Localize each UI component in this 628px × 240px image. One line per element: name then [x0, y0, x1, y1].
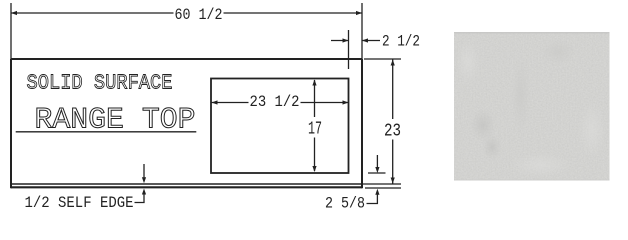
arrow 1/2 lower (points up) [142, 189, 146, 195]
arrow 2 1/2 left stub (points right) [343, 38, 349, 42]
arrow 23 1/2 left [212, 100, 218, 104]
arrow 60 1/2 left [11, 11, 17, 15]
arrow 2 5/8 upper (points down) [375, 167, 379, 173]
bottom edge line [11, 186, 362, 188]
underline for RANGE TOP [16, 131, 197, 133]
arrow 2 5/8 lower (points up) [375, 189, 379, 195]
self edge line (upper bottom line) [11, 183, 362, 185]
countertop outline: right edge (with extension up to dim) [361, 3, 363, 59]
arrow 60 1/2 right [356, 11, 362, 15]
extension line self-edge right for 23 [362, 183, 401, 185]
extension line cutout bottom right for 2 5/8 [368, 172, 386, 174]
extension line for cutout right edge (up) [348, 30, 350, 69]
dim 2 5/8: upper stub [376, 155, 378, 167]
range cutout rectangle [211, 79, 349, 174]
dim 1/2 self edge: upper stub [143, 164, 145, 178]
dim 2 1/2: stubs [331, 40, 380, 42]
dim 60 1/2: line [11, 12, 362, 14]
countertop outline: left edge (with extension up to dim) [10, 3, 12, 59]
arrow 23 top [391, 60, 395, 66]
dim 23: line [392, 60, 394, 184]
dim 2 5/8: lower stub and leader [367, 194, 378, 204]
arrow 2 1/2 right stub (points left) [362, 38, 368, 42]
arrow 23 bottom [391, 178, 395, 184]
dim 1/2 self edge: lower stub and leader [135, 194, 145, 203]
arrow 17 top [312, 80, 316, 86]
countertop outline: top edge [11, 58, 362, 60]
arrow 23 1/2 right [343, 100, 349, 104]
arrow 1/2 upper (points down) [142, 177, 146, 183]
extension line top right for 23 [364, 58, 401, 60]
dim 23 1/2: line [212, 102, 349, 104]
dim 17: line [314, 80, 316, 171]
extension line bottom right for 2 5/8 [365, 187, 401, 189]
arrow 17 bottom [312, 166, 316, 172]
